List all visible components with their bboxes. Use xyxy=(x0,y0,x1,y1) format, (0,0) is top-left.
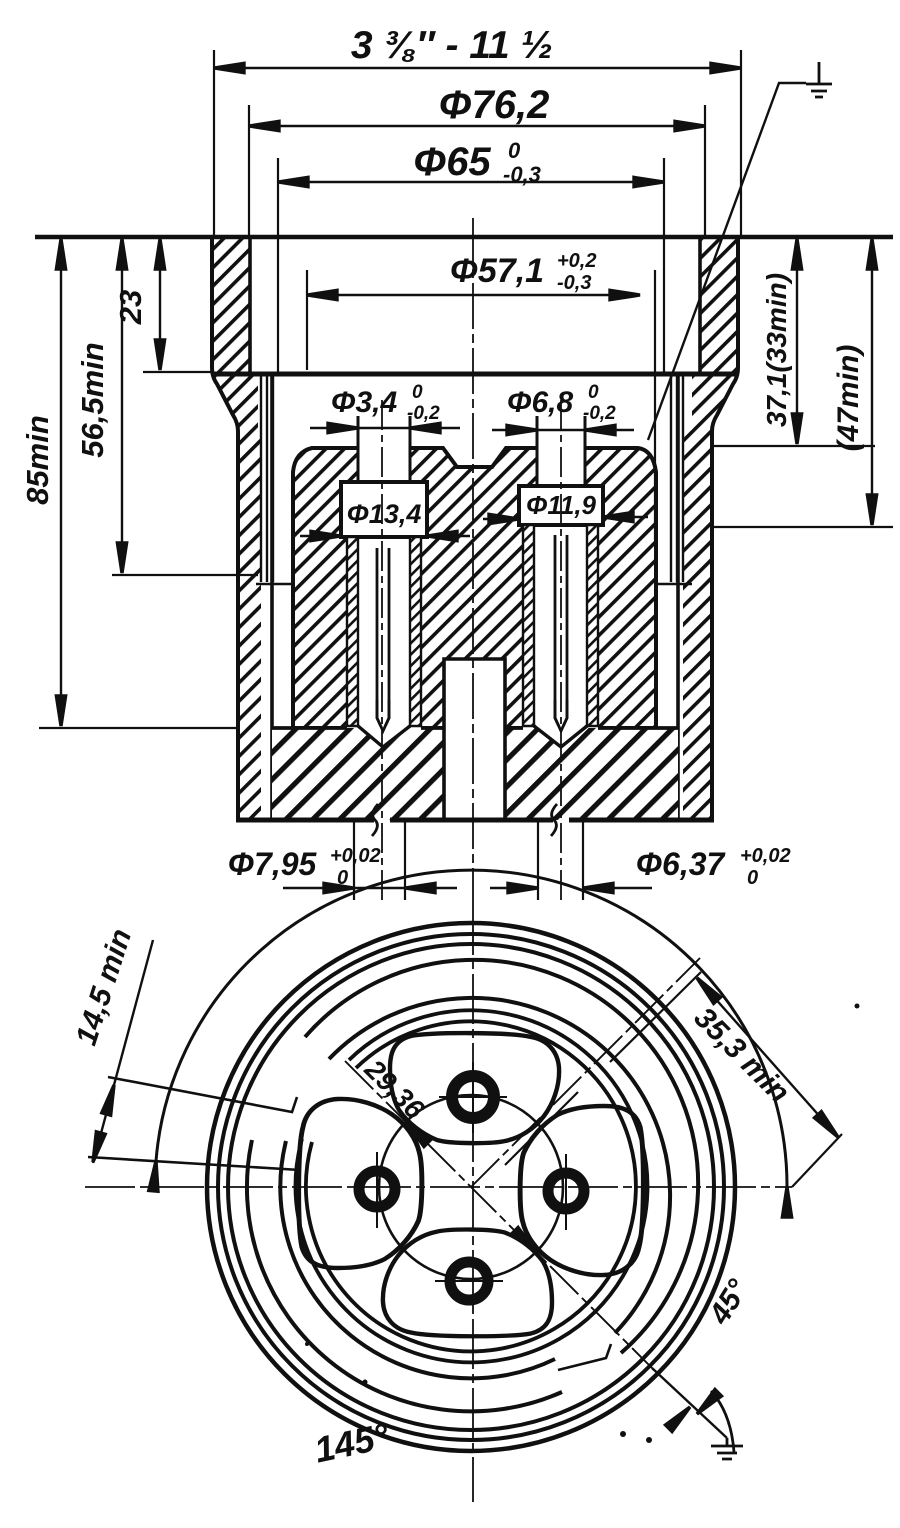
svg-text:Φ6,37: Φ6,37 xyxy=(636,846,727,882)
svg-text:0: 0 xyxy=(337,867,348,889)
dim phi3.4 xyxy=(310,427,460,429)
svg-text:-0,3: -0,3 xyxy=(557,272,591,294)
bolt circle r92 xyxy=(379,1095,563,1279)
dim phi65 xyxy=(278,158,664,372)
circle r165 with gap xyxy=(306,1021,636,1351)
svg-text:-0,2: -0,2 xyxy=(583,403,616,424)
tube V bottom right restroke xyxy=(534,726,587,747)
pin top xyxy=(452,1076,494,1118)
parallel segment near NE diagonal xyxy=(505,1092,578,1165)
outer circle r264 xyxy=(207,923,735,1451)
dim phi57.1 xyxy=(307,270,655,540)
dim phi6.37 xyxy=(538,822,583,900)
svg-text:-0,3: -0,3 xyxy=(503,162,541,187)
dim 14.5min xyxy=(93,940,153,1163)
pin axis left xyxy=(381,400,383,905)
cup floor ext for dim 23 xyxy=(143,371,212,373)
dim 29.36 arrows xyxy=(403,1119,431,1147)
dim phi6.8 xyxy=(492,429,634,431)
dim 56.5min xyxy=(121,241,123,572)
dim 35.3min xyxy=(697,978,838,1137)
svg-text:56,5min: 56,5min xyxy=(75,342,110,457)
svg-text:0: 0 xyxy=(747,867,758,889)
pin hole edges right xyxy=(537,416,585,486)
break squiggle right xyxy=(551,804,557,836)
dim 37.1 xyxy=(796,241,798,444)
svg-text:Φ3,4: Φ3,4 xyxy=(331,386,398,419)
lobe bottom xyxy=(383,1230,552,1337)
svg-text:Φ7,95: Φ7,95 xyxy=(228,846,318,882)
svg-text:0: 0 xyxy=(508,138,521,163)
keyway chord upper-left (line A) xyxy=(108,1077,297,1112)
dim phi11.9 arrows xyxy=(483,517,648,519)
tube V bottom left xyxy=(358,726,410,747)
break squiggle left xyxy=(372,804,378,836)
shell outline left xyxy=(212,237,238,820)
insulator white bores xyxy=(341,446,603,728)
center line section xyxy=(472,218,474,905)
counterbore box Phi11.9 xyxy=(519,486,603,525)
counterbore box Phi13.4 xyxy=(341,482,427,537)
svg-text:-0,2: -0,2 xyxy=(407,403,440,424)
center line vertical lower xyxy=(472,905,474,1502)
dim thread 3 3/8-11 1/2 xyxy=(214,50,741,237)
ext line 47 right xyxy=(712,526,893,528)
pin contact right xyxy=(555,535,567,731)
tube sleeve walls left (hatched thin) xyxy=(347,525,598,726)
svg-text:Φ65: Φ65 xyxy=(413,140,491,184)
dim 85min xyxy=(60,241,62,725)
svg-text:+0,2: +0,2 xyxy=(557,250,596,272)
dim phi76.2 xyxy=(249,105,705,239)
diagonal SE solid to ground xyxy=(652,1368,727,1438)
bottom block (coarse hatch) xyxy=(272,728,678,820)
liner sleeve right xyxy=(652,376,692,584)
liner sleeve left xyxy=(256,376,296,584)
dim arc 145/45 r316 xyxy=(156,870,787,1187)
arc fragment near ground xyxy=(711,1391,734,1452)
svg-text:37,1(33min): 37,1(33min) xyxy=(761,273,792,427)
keyway chord lower-right xyxy=(558,1344,611,1370)
svg-text:85min: 85min xyxy=(20,415,55,505)
pin bottom xyxy=(450,1262,488,1300)
dim 23 xyxy=(159,241,161,370)
svg-text:3 ⅜″ - 11 ½: 3 ⅜″ - 11 ½ xyxy=(351,24,553,67)
cup floor xyxy=(212,372,738,377)
ground leader xyxy=(648,83,806,440)
central stem xyxy=(444,659,505,820)
bottom view texts xyxy=(70,925,796,1471)
circle r224 with keyway gaps xyxy=(305,960,698,1353)
ext line 56.5 xyxy=(112,574,258,576)
stray dots xyxy=(305,1004,860,1444)
pin contact left xyxy=(377,548,389,731)
svg-text:0: 0 xyxy=(588,382,599,403)
lobe top xyxy=(390,1033,559,1143)
circle r253 xyxy=(218,934,724,1440)
line B xyxy=(88,1157,300,1170)
svg-text:+0,02: +0,02 xyxy=(740,845,791,867)
center line horizontal xyxy=(85,1186,792,1188)
dim phi13.4 arrows xyxy=(300,535,470,537)
circle r243 xyxy=(228,944,714,1430)
lobe right xyxy=(520,1106,643,1275)
part top surface xyxy=(35,235,893,240)
diagonal NE dashdot xyxy=(471,958,700,1187)
dim phi7.95 xyxy=(354,822,405,900)
svg-text:Φ13,4: Φ13,4 xyxy=(347,499,422,529)
svg-text:23: 23 xyxy=(113,290,148,325)
svg-text:Φ6,8: Φ6,8 xyxy=(507,386,574,419)
shell cup wall left (hatched) xyxy=(212,239,738,820)
ground symbol bottom xyxy=(711,1438,743,1459)
bottom edge xyxy=(236,818,714,823)
diagonal NW-SE dashdot xyxy=(345,1061,652,1368)
pin axis right xyxy=(560,400,562,905)
pin left xyxy=(359,1171,395,1207)
shell outline right xyxy=(712,237,738,820)
block top line xyxy=(272,726,678,730)
circle r191 with gaps xyxy=(329,998,670,1333)
svg-text:Φ57,1: Φ57,1 xyxy=(450,252,544,290)
lobe left xyxy=(299,1099,422,1268)
svg-text:+0,02: +0,02 xyxy=(330,845,381,867)
dim 47min xyxy=(871,241,873,525)
ground symbol top xyxy=(806,62,832,97)
pin right xyxy=(548,1173,584,1209)
svg-text:Φ76,2: Φ76,2 xyxy=(439,83,550,127)
svg-text:0: 0 xyxy=(412,382,423,403)
pin hole edges left xyxy=(358,416,410,482)
insulator body (hatched) xyxy=(293,448,656,728)
ext line 37.1 right xyxy=(712,445,875,447)
tube V bottom right xyxy=(534,726,587,747)
tube V bottom left restroke xyxy=(358,726,410,747)
svg-text:Φ11,9: Φ11,9 xyxy=(526,490,597,520)
circle r176 with gap xyxy=(296,1010,648,1362)
ext line 85 xyxy=(39,727,240,729)
svg-text:(47min): (47min) xyxy=(832,345,865,452)
